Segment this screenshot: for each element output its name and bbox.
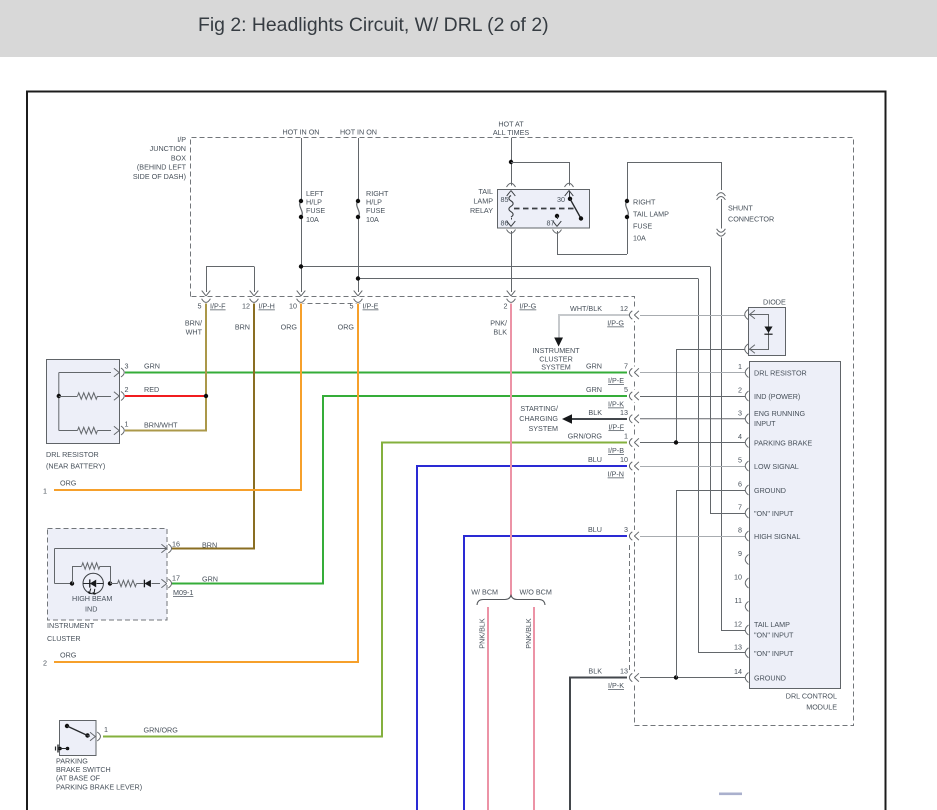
svg-text:10A: 10A [366,215,379,224]
svg-text:HIGH BEAM: HIGH BEAM [72,594,112,603]
svg-text:BRN/WHT: BRN/WHT [144,421,178,430]
svg-text:PARKING BRAKE LEVER): PARKING BRAKE LEVER) [56,782,142,791]
svg-text:1: 1 [738,362,742,371]
svg-text:5: 5 [350,302,354,311]
svg-text:BRN: BRN [235,323,250,332]
svg-text:SHUNT: SHUNT [728,204,753,213]
svg-text:GRN: GRN [586,362,602,371]
svg-text:10A: 10A [633,234,646,243]
svg-text:INPUT: INPUT [754,419,776,428]
svg-text:I/P-E: I/P-E [608,376,624,385]
svg-text:12: 12 [734,620,742,629]
svg-text:ALL TIMES: ALL TIMES [493,128,530,137]
svg-text:8: 8 [738,526,742,535]
svg-text:SIDE OF DASH): SIDE OF DASH) [133,172,186,181]
svg-text:2: 2 [43,659,47,668]
svg-text:CLUSTER: CLUSTER [47,634,81,643]
svg-text:(NEAR BATTERY): (NEAR BATTERY) [46,462,105,471]
svg-text:6: 6 [738,480,742,489]
svg-text:2: 2 [504,302,508,311]
svg-text:12: 12 [242,302,250,311]
svg-text:"ON" INPUT: "ON" INPUT [754,630,794,639]
svg-text:TAIL LAMP: TAIL LAMP [633,210,669,219]
svg-text:13: 13 [734,643,742,652]
svg-text:DRL RESISTOR: DRL RESISTOR [754,369,807,378]
svg-text:12: 12 [620,304,628,313]
svg-text:DRL RESISTOR: DRL RESISTOR [46,450,99,459]
svg-text:GRN: GRN [202,575,218,584]
svg-text:Fig 2: Headlights Circuit, W/: Fig 2: Headlights Circuit, W/ DRL (2 of … [198,14,549,36]
svg-text:"ON" INPUT: "ON" INPUT [754,509,794,518]
svg-text:BRN/: BRN/ [185,319,202,328]
svg-text:87: 87 [547,219,555,228]
svg-text:10: 10 [620,455,628,464]
svg-text:I/P-H: I/P-H [259,302,275,311]
svg-text:TAIL LAMP: TAIL LAMP [754,620,790,629]
svg-text:PARKING BRAKE: PARKING BRAKE [754,439,812,448]
svg-text:CHARGING: CHARGING [519,414,558,423]
svg-text:13: 13 [620,408,628,417]
svg-text:I/P-B: I/P-B [608,446,624,455]
svg-text:I/P: I/P [177,135,186,144]
svg-text:1: 1 [125,420,129,429]
svg-text:PNK/BLK: PNK/BLK [478,618,487,649]
svg-text:GROUND: GROUND [754,674,786,683]
svg-text:1: 1 [43,487,47,496]
svg-text:W/ BCM: W/ BCM [471,588,498,597]
svg-text:I/P-G: I/P-G [607,319,624,328]
svg-text:1: 1 [624,432,628,441]
svg-text:1: 1 [104,725,108,734]
svg-text:RIGHT: RIGHT [633,198,656,207]
svg-text:ORG: ORG [60,651,77,660]
svg-text:GRN/ORG: GRN/ORG [144,726,179,735]
svg-text:I/P-K: I/P-K [608,681,624,690]
svg-text:I/P-G: I/P-G [520,302,537,311]
svg-text:I/P-F: I/P-F [210,302,226,311]
svg-text:16: 16 [172,540,180,549]
svg-text:2: 2 [738,386,742,395]
svg-text:I/P-N: I/P-N [608,470,624,479]
svg-text:DRL CONTROL: DRL CONTROL [786,692,837,701]
svg-text:BLK: BLK [588,667,602,676]
svg-text:9: 9 [738,549,742,558]
svg-text:TAIL: TAIL [478,187,493,196]
svg-text:GRN/ORG: GRN/ORG [568,432,603,441]
svg-text:BLK: BLK [493,328,507,337]
svg-text:MODULE: MODULE [806,703,837,712]
svg-text:ORG: ORG [60,479,77,488]
svg-text:BOX: BOX [171,153,186,162]
svg-text:DIODE: DIODE [763,298,786,307]
svg-text:WHT/BLK: WHT/BLK [570,304,602,313]
svg-text:IND: IND [85,605,97,614]
svg-text:(BEHIND LEFT: (BEHIND LEFT [137,163,187,172]
svg-text:11: 11 [735,596,742,605]
svg-text:HOT IN ON: HOT IN ON [282,128,319,137]
svg-text:LOW SIGNAL: LOW SIGNAL [754,462,799,471]
svg-text:GRN: GRN [586,385,602,394]
svg-text:3: 3 [738,409,742,418]
svg-text:ORG: ORG [281,323,298,332]
svg-text:10: 10 [734,573,742,582]
svg-text:W/O BCM: W/O BCM [520,588,552,597]
svg-text:BLU: BLU [588,455,602,464]
svg-text:7: 7 [624,362,628,371]
svg-text:86: 86 [501,219,509,228]
svg-text:5: 5 [198,302,202,311]
svg-text:RED: RED [144,385,159,394]
svg-text:RELAY: RELAY [470,206,493,215]
svg-text:7: 7 [738,503,742,512]
svg-text:3: 3 [125,362,129,371]
svg-text:SYSTEM: SYSTEM [541,363,571,372]
svg-text:ORG: ORG [338,323,355,332]
svg-text:4: 4 [738,432,742,441]
svg-text:FUSE: FUSE [633,222,652,231]
svg-text:2: 2 [125,385,129,394]
svg-text:17: 17 [172,574,180,583]
svg-text:30: 30 [557,195,565,204]
svg-text:SYSTEM: SYSTEM [528,424,558,433]
svg-text:HOT IN ON: HOT IN ON [340,128,377,137]
svg-text:PNK/BLK: PNK/BLK [524,618,533,649]
svg-text:JUNCTION: JUNCTION [150,144,186,153]
svg-text:BLK: BLK [588,408,602,417]
svg-text:I/P-E: I/P-E [363,302,379,311]
svg-text:M09-1: M09-1 [173,588,193,597]
svg-text:I/P-F: I/P-F [608,422,624,431]
svg-text:BLU: BLU [588,525,602,534]
svg-text:14: 14 [734,667,742,676]
svg-text:CONNECTOR: CONNECTOR [728,215,774,224]
svg-text:3: 3 [624,525,628,534]
svg-text:"ON" INPUT: "ON" INPUT [754,649,794,658]
svg-text:10: 10 [289,302,297,311]
svg-text:LAMP: LAMP [473,197,493,206]
svg-text:10A: 10A [306,215,319,224]
svg-text:HIGH SIGNAL: HIGH SIGNAL [754,532,800,541]
svg-text:85: 85 [501,195,509,204]
svg-text:GRN: GRN [144,362,160,371]
svg-text:BRN: BRN [202,541,217,550]
svg-text:STARTING/: STARTING/ [520,404,558,413]
svg-text:5: 5 [624,385,628,394]
svg-text:5: 5 [738,456,742,465]
svg-text:INSTRUMENT: INSTRUMENT [47,621,95,630]
svg-text:ENG RUNNING: ENG RUNNING [754,409,806,418]
svg-text:IND (POWER): IND (POWER) [754,392,800,401]
svg-text:GROUND: GROUND [754,486,786,495]
svg-text:WHT: WHT [186,328,203,337]
svg-text:PNK/: PNK/ [490,319,507,328]
svg-text:13: 13 [620,667,628,676]
